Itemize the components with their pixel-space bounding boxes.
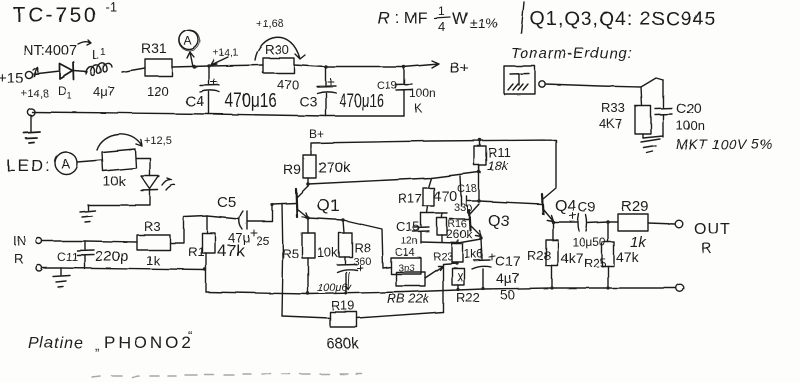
svg-text:R17: R17	[398, 191, 422, 206]
arc arrow over 10k	[97, 134, 142, 150]
svg-text:OUT: OUT	[694, 221, 731, 238]
svg-text:100n: 100n	[676, 118, 705, 133]
svg-text:100n: 100n	[409, 86, 436, 100]
lower output terminal	[676, 284, 684, 292]
svg-text:+14,8: +14,8	[21, 88, 49, 100]
svg-text:A: A	[184, 34, 192, 48]
lower input terminal	[36, 265, 42, 271]
wire (Q3 base)	[450, 218, 469, 220]
svg-text:470μ16: 470μ16	[339, 91, 384, 112]
divider line	[521, 2, 524, 33]
svg-text:B+: B+	[450, 60, 469, 77]
svg-text:Q1: Q1	[317, 196, 340, 215]
svg-text:12n: 12n	[401, 236, 418, 247]
resistor R31	[145, 59, 172, 76]
svg-text:4k7: 4k7	[561, 250, 584, 266]
svg-text:+12,5: +12,5	[144, 135, 172, 147]
resistor R30	[263, 58, 294, 73]
ground rail (power)	[32, 112, 404, 116]
svg-text:C18: C18	[457, 183, 477, 195]
svg-text:Q3: Q3	[488, 213, 509, 230]
svg-text:120: 120	[147, 84, 169, 99]
label NT:4007	[23, 43, 77, 59]
svg-text:R1: R1	[188, 244, 205, 259]
svg-text:4μ7: 4μ7	[93, 84, 115, 99]
B+ rail	[311, 140, 556, 187]
wire	[247, 204, 272, 221]
svg-text:Q4: Q4	[555, 198, 576, 215]
capacitor C19	[396, 67, 412, 116]
svg-text:Tonarm-Erdung:: Tonarm-Erdung:	[511, 45, 633, 62]
label RB 22k	[387, 291, 431, 306]
wire	[74, 71, 87, 72]
svg-text:+1,68: +1,68	[256, 18, 284, 30]
svg-text:4: 4	[438, 19, 445, 34]
resistor R29	[608, 221, 618, 223]
svg-text:1: 1	[438, 4, 445, 18]
wire	[30, 115, 32, 132]
svg-text:10k: 10k	[103, 173, 127, 189]
wire	[209, 65, 263, 66]
svg-text:R19: R19	[331, 298, 355, 313]
svg-text:270k: 270k	[318, 159, 351, 176]
resistor R22	[452, 268, 464, 285]
tonearm terminal	[539, 81, 545, 87]
svg-text:LED:: LED:	[6, 156, 52, 175]
svg-text:R23: R23	[433, 251, 453, 263]
capacitor C11	[77, 241, 94, 269]
svg-text:R: R	[701, 240, 712, 257]
wire	[122, 68, 145, 72]
svg-text:R9: R9	[283, 161, 301, 177]
svg-text:R8: R8	[354, 240, 371, 255]
resistor R11	[479, 140, 481, 146]
svg-text:MKT 100V 5%: MKT 100V 5%	[676, 136, 773, 152]
wire	[545, 78, 663, 87]
svg-text:-1: -1	[105, 0, 117, 14]
svg-text:C11: C11	[57, 250, 78, 264]
label LED:	[6, 156, 52, 175]
wire	[42, 268, 205, 270]
svg-text:1: 1	[67, 91, 72, 101]
transistor Q3	[469, 210, 470, 230]
B+ arrow (power out)	[403, 61, 439, 68]
title TC-750	[13, 0, 117, 27]
label IN R	[13, 233, 26, 266]
arrow to ammeter	[187, 52, 194, 67]
wire	[34, 71, 60, 74]
svg-text:C14: C14	[395, 247, 415, 259]
svg-text:Platine: Platine	[28, 335, 84, 352]
svg-text:A: A	[61, 156, 70, 171]
ammeter A (top)	[180, 31, 199, 50]
wire	[170, 216, 239, 243]
ladder bottom wire to Q3 emitter	[421, 239, 481, 243]
RIAA ladder top wire	[421, 212, 447, 214]
svg-text:R3: R3	[144, 219, 161, 234]
ground	[24, 132, 40, 143]
node +14,1 arrow	[213, 48, 239, 59]
svg-text:K: K	[414, 101, 422, 115]
input terminal	[36, 238, 42, 244]
svg-text:TC-750: TC-750	[13, 4, 98, 27]
wire	[172, 66, 209, 67]
svg-text:R5: R5	[282, 246, 299, 261]
wire	[77, 160, 102, 162]
svg-text:C15: C15	[396, 219, 420, 234]
faint scan marks (bottom)	[92, 374, 362, 377]
svg-text:C20: C20	[676, 100, 702, 116]
svg-text:R22: R22	[456, 290, 480, 305]
svg-text:PHONO2: PHONO2	[104, 333, 194, 352]
capacitor C14	[391, 258, 421, 274]
svg-text:680k: 680k	[326, 335, 359, 352]
node (feedback)	[443, 263, 457, 312]
Q1 emitter wire	[308, 218, 383, 268]
svg-text:360: 360	[353, 256, 371, 268]
transistor Q4	[542, 194, 543, 214]
capacitor C4	[200, 66, 219, 114]
svg-text:10k: 10k	[317, 245, 338, 260]
wire	[136, 158, 150, 176]
svg-text:R30: R30	[265, 42, 289, 57]
output terminal	[675, 220, 683, 228]
svg-text:3n3: 3n3	[398, 263, 415, 274]
LED D2	[141, 176, 159, 191]
note R: MF 1/4W +-1%	[378, 4, 498, 34]
svg-text:R31: R31	[141, 40, 167, 56]
resistor R17	[428, 178, 431, 188]
resistor R23	[457, 240, 458, 244]
svg-text:25: 25	[256, 234, 270, 248]
svg-text:C17: C17	[495, 253, 521, 269]
svg-text:47μ: 47μ	[228, 230, 250, 245]
resistor R8	[343, 220, 344, 233]
svg-text:220p: 220p	[95, 248, 128, 265]
capacitor C20	[643, 80, 672, 138]
wire	[88, 191, 150, 210]
svg-text:R29: R29	[621, 198, 649, 215]
svg-text:R: R	[14, 251, 23, 266]
LED light arrows	[162, 178, 175, 190]
wire (mid rail to R17/R11)	[308, 172, 479, 184]
svg-text:10μ50: 10μ50	[572, 235, 606, 249]
resistor R9	[303, 155, 316, 178]
ground (input)	[53, 268, 70, 287]
junction dots (output)	[550, 220, 609, 289]
svg-text:1: 1	[100, 47, 106, 58]
resistor R5	[307, 218, 309, 233]
svg-text:±1%: ±1%	[470, 15, 498, 31]
svg-text:C4: C4	[185, 93, 204, 110]
svg-text:1k6: 1k6	[464, 247, 484, 261]
svg-text:1k: 1k	[146, 253, 160, 268]
feedback wire down	[282, 204, 283, 316]
arrow over 4007	[78, 40, 91, 45]
inductor L1	[86, 63, 112, 75]
svg-text:4μ7: 4μ7	[496, 270, 520, 286]
svg-text:Q1,Q3,Q4: 2SC945: Q1,Q3,Q4: 2SC945	[530, 8, 716, 30]
main bottom rail	[206, 288, 676, 294]
svg-text:„: „	[95, 338, 99, 353]
wire	[294, 65, 403, 67]
svg-text:C3: C3	[299, 93, 317, 109]
svg-text:B+: B+	[309, 127, 324, 141]
resistor 10k (LED)	[102, 149, 136, 171]
svg-text:C5: C5	[217, 194, 236, 211]
svg-text:“: “	[188, 328, 192, 343]
resistor R19	[282, 316, 330, 318]
svg-text:L: L	[92, 47, 99, 62]
svg-text:100μ6: 100μ6	[317, 282, 348, 294]
svg-text:470μ16: 470μ16	[225, 90, 277, 112]
lower input terminal	[27, 108, 34, 115]
wire (Q1 base)	[272, 203, 296, 204]
wire (Q4 base)	[479, 201, 542, 204]
arc arrow over R30	[255, 37, 305, 60]
label Tonarm-Erdung:	[511, 45, 633, 62]
ammeter A (LED)	[55, 152, 77, 174]
svg-text:470: 470	[277, 77, 299, 92]
resistor R3	[137, 235, 170, 250]
junction dots (amp)	[203, 138, 484, 295]
resistor R28	[546, 240, 558, 266]
input terminal +15	[0, 70, 49, 100]
svg-text:IN: IN	[13, 233, 26, 248]
svg-text:1k: 1k	[630, 234, 647, 251]
svg-text:RB 22k: RB 22k	[387, 291, 431, 306]
svg-text:260k: 260k	[446, 227, 473, 241]
tonearm ground box	[504, 66, 535, 94]
capacitor C5	[239, 211, 247, 229]
junction dots	[192, 64, 405, 68]
svg-text:C9: C9	[578, 199, 596, 215]
wire (Q4 emitter node)	[552, 221, 554, 240]
label B+ (rail)	[309, 127, 324, 141]
capacitor C15	[413, 213, 429, 243]
resistor R33	[641, 87, 642, 106]
wire (R11 bottom down to Q3 collector node)	[478, 165, 480, 202]
capacitor 100u (under R8)	[337, 257, 357, 293]
svg-text:47k: 47k	[616, 249, 640, 265]
capacitor C3	[317, 67, 336, 116]
svg-text:18k: 18k	[487, 158, 509, 173]
label Platine PHONO2	[28, 328, 194, 353]
resistor R25	[607, 222, 609, 242]
svg-text:W: W	[452, 9, 468, 28]
svg-text:R33: R33	[601, 100, 625, 115]
svg-text:: MF: : MF	[395, 10, 427, 27]
svg-text:4K7: 4K7	[599, 116, 622, 131]
capacitor C18	[460, 176, 478, 206]
resistor R1	[206, 216, 208, 233]
capacitor C17	[472, 239, 491, 289]
wire	[205, 253, 207, 292]
wire	[307, 178, 309, 186]
wire	[42, 241, 137, 242]
svg-text:R: R	[378, 9, 390, 28]
resistor R16	[441, 213, 443, 218]
svg-text:R25: R25	[584, 256, 606, 270]
wire to output	[648, 223, 675, 224]
ground (tonearm)	[641, 139, 660, 153]
svg-text:C19: C19	[377, 80, 397, 92]
svg-text:+15: +15	[0, 70, 23, 87]
svg-text:NT:4007: NT:4007	[23, 43, 77, 59]
transistor Q1	[296, 189, 297, 217]
svg-text:D: D	[58, 84, 67, 98]
note Q1,Q3,Q4: 2SC945	[530, 8, 716, 30]
svg-text:R28: R28	[527, 248, 551, 263]
diode D1	[60, 62, 74, 80]
ground (LED)	[80, 211, 95, 223]
capacitor C9	[553, 214, 608, 231]
